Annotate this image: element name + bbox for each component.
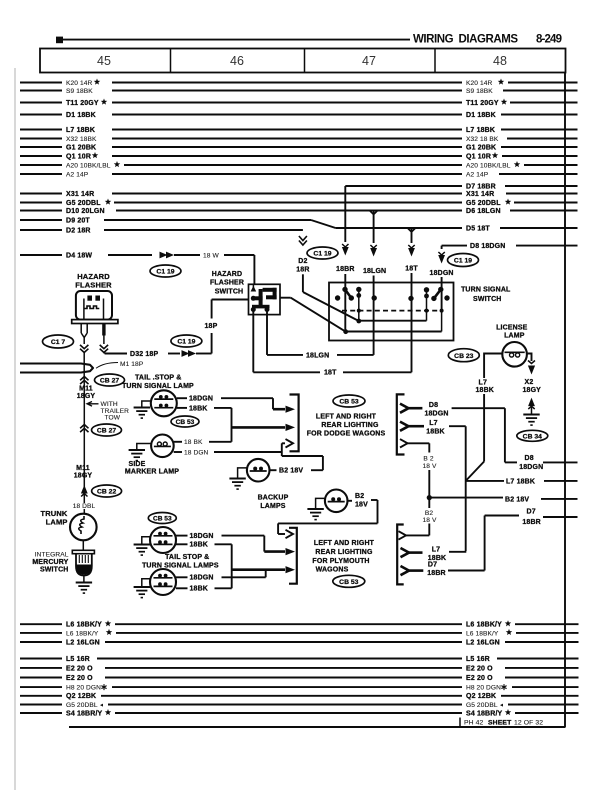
svg-text:46: 46 [230,54,244,68]
svg-text:X32 18 BK: X32 18 BK [466,136,499,143]
svg-text:L7 18BK: L7 18BK [466,127,495,134]
wire 18 DGN (side marker) [174,439,293,456]
svg-text:T11 20GY: T11 20GY [466,100,499,107]
svg-text:18GY: 18GY [523,387,542,394]
wire bundle M1 18P [20,361,144,373]
svg-text:FOR PLYMOUTH: FOR PLYMOUTH [312,558,369,565]
svg-text:18P: 18P [205,323,218,330]
hazard flasher switch [210,271,280,315]
svg-text:LAMP: LAMP [504,332,525,339]
svg-text:18BR: 18BR [427,570,446,577]
wire X32 18BK [20,136,578,143]
wire T11 20GY [20,99,578,107]
wire B2 18V (backup lamp right) [278,493,377,538]
svg-text:A20 10BK/LBL: A20 10BK/LBL [66,162,111,169]
svg-text:D7: D7 [527,509,536,516]
svg-text:L2 16LGN: L2 16LGN [66,639,100,646]
svg-text:CB 27: CB 27 [97,428,116,435]
page scan edge [14,68,16,790]
turn signal switch [329,283,511,341]
svg-text:◄: ◄ [499,703,504,709]
connector bracket (dodge wagons) [290,395,299,452]
svg-text:MARKER LAMP: MARKER LAMP [125,469,179,476]
node 18DGN drop from D8 line [430,246,454,283]
svg-text:C1 19: C1 19 [177,339,195,346]
backup lamp (right) [325,490,348,513]
svg-text:G5 20DBL: G5 20DBL [66,702,98,709]
svg-text:FOR DODGE WAGONS: FOR DODGE WAGONS [307,430,386,437]
wire B2 18V (backup lamp left) [270,468,323,475]
connector C1 7 [43,335,74,348]
svg-text:45: 45 [97,54,111,68]
wire hazard switch diagonal to turn signal switch [280,298,346,332]
wire D4 18W [20,252,254,285]
svg-text:MERCURY: MERCURY [32,559,68,566]
circuit breaker CB 53 (plymouth) [333,575,365,587]
svg-text:H8 20 DGN: H8 20 DGN [466,685,501,692]
svg-text:L7 18BK: L7 18BK [66,127,95,134]
label backup lamps [258,495,289,511]
wire L7 18BK exit right [466,478,578,485]
wire A20 10BK/LBL [20,161,578,169]
svg-text:C1 19: C1 19 [454,258,472,265]
ground (plymouth lower lamp) [134,579,150,598]
svg-text:WAGONS: WAGONS [316,567,349,574]
wire D2 18R [20,227,303,234]
connector C1 19 (D2 line) [307,247,338,259]
wire 18BK (plymouth lower) [176,586,232,593]
svg-text:18DGN: 18DGN [190,575,214,582]
connector CB 34 [517,430,548,441]
svg-text:C1 7: C1 7 [51,339,66,346]
svg-text:G1 20BK: G1 20BK [66,144,96,151]
svg-text:X32 18BK: X32 18BK [66,136,97,143]
node 18BR drop to turn signal switch [336,186,355,283]
wire A2 14P [20,171,578,178]
svg-text:SIDE: SIDE [129,461,146,468]
svg-text:D9 20T: D9 20T [66,217,90,224]
svg-text:SHEET: SHEET [488,720,512,727]
wire L7 18BK from bracket [400,420,466,551]
wire L6 18BK/Y [20,629,579,637]
license lamp [496,325,528,367]
wire D8 18DGN from bracket [400,402,578,471]
svg-text:K20 14R: K20 14R [66,80,92,87]
svg-text:G1 20BK: G1 20BK [466,144,496,151]
svg-text:G5 20DBL: G5 20DBL [466,200,501,207]
svg-text:SWITCH: SWITCH [215,288,244,295]
svg-text:Q2 12BK: Q2 12BK [66,693,96,700]
svg-text:47: 47 [362,54,376,68]
svg-text:E2 20 O: E2 20 O [466,675,493,682]
with trailer tow note [87,401,129,421]
ground (upper tail lamp) [134,401,151,418]
node 18LGN drop from D6 line [363,211,386,283]
svg-text:L7: L7 [432,547,440,554]
column header table [40,49,566,73]
footer sheet label [460,718,543,728]
wire G5 20DBL [20,199,578,207]
svg-text:REAR LIGHTING: REAR LIGHTING [315,549,373,556]
wire X31 14R [20,191,578,198]
ground (backup lamp right) [307,498,325,519]
tail stop & turn signal lamps (plymouth, upper) [150,527,176,553]
svg-text:K20 14R: K20 14R [466,80,492,87]
wire 18DGN (plymouth upper) [176,533,295,555]
svg-text:L6 18BK/Y: L6 18BK/Y [66,622,102,629]
svg-text:18BK: 18BK [426,429,445,436]
wire E2 20 O [20,665,579,672]
svg-text:18DGN: 18DGN [424,411,448,418]
circuit breaker CB 27 (upper) [95,374,125,386]
svg-text:CB 53: CB 53 [339,399,358,406]
node D2 18R drop [296,236,359,321]
svg-text:X2: X2 [525,379,534,386]
svg-text:L6 18BK/Y: L6 18BK/Y [466,622,502,629]
header rule [56,33,562,45]
svg-text:REAR LIGHTING: REAR LIGHTING [321,422,379,429]
svg-text:18DGN: 18DGN [430,270,454,277]
integral mercury switch [32,540,94,575]
svg-text:D32 18P: D32 18P [130,351,158,358]
svg-text:S9 18BK: S9 18BK [466,88,493,95]
svg-text:H8 20 DGN: H8 20 DGN [66,685,101,692]
svg-text:18 W: 18 W [203,252,219,259]
circuit breaker CB 53 (above plymouth lamps) [148,513,176,524]
svg-text:B2 18V: B2 18V [279,468,303,475]
backup lamp (left) [247,459,270,482]
svg-text:18DGN: 18DGN [519,464,543,471]
svg-text:18 DGN: 18 DGN [184,449,209,456]
svg-text:TAIL .STOP &: TAIL .STOP & [135,375,181,382]
wire D10 20LGN / D6 18LGN [20,208,578,215]
svg-text:D1 18BK: D1 18BK [66,112,96,119]
wire B2 18V to plymouth bracket [399,510,437,540]
svg-text:TURN SIGNAL LAMP: TURN SIGNAL LAMP [122,383,194,390]
svg-text:18T: 18T [405,266,418,273]
wire L6 18BK/Y [20,620,579,628]
svg-text:B2: B2 [355,493,364,500]
svg-text:◄: ◄ [99,703,104,709]
svg-text:S9 18BK: S9 18BK [66,88,93,95]
right page border [564,73,566,728]
connector CB 23 [448,349,479,362]
svg-text:CB 53: CB 53 [153,516,172,523]
ground (backup lamp left) [229,468,247,489]
svg-text:LICENSE: LICENSE [496,325,528,332]
svg-text:18BK: 18BK [190,586,209,593]
wire D9 20T / D5 18T with jog [20,217,578,232]
svg-text:D8: D8 [429,402,438,409]
svg-text:C1 19: C1 19 [156,269,174,276]
connector bracket (plymouth, right half) [397,525,404,585]
svg-text:18 V: 18 V [423,463,437,470]
svg-text:TAIL STOP &: TAIL STOP & [165,554,209,561]
svg-text:FLASHER: FLASHER [210,280,244,287]
svg-text:CB 34: CB 34 [523,433,542,440]
svg-text:B2: B2 [425,510,433,517]
svg-text:SWITCH: SWITCH [473,296,502,303]
circuit breaker CB 22 [92,485,122,497]
wire G1 20BK [20,144,578,151]
svg-text:X31 14R: X31 14R [66,191,94,198]
svg-text:TOW: TOW [105,414,121,421]
wire 18DGN (upper tail lamp) [177,396,295,413]
wire 18BK (plymouth upper) [176,542,295,589]
svg-text:L5 16R: L5 16R [66,656,90,663]
svg-text:WIRING DIAGRAMS: WIRING DIAGRAMS [413,33,518,45]
wire hazard switch to 18T row [253,311,411,377]
svg-text:E2 20 O: E2 20 O [66,665,93,672]
wire L7 18BK (plymouth bracket) [401,547,467,563]
svg-text:D5 18T: D5 18T [466,225,490,232]
svg-text:M1 18P: M1 18P [120,361,144,368]
trunk lamp [41,509,97,540]
circuit breaker CB 53 (dodge) [333,395,365,407]
circuit breaker CB 53 (upper) [171,416,199,427]
wire D32 18P [105,350,212,358]
side marker lamp [125,435,179,476]
svg-text:CB 23: CB 23 [454,353,473,360]
svg-text:18 BK: 18 BK [184,439,203,446]
svg-text:LEFT AND RIGHT: LEFT AND RIGHT [316,414,377,421]
svg-text:B2 18V: B2 18V [505,496,529,503]
svg-text:E2 20 O: E2 20 O [66,675,93,682]
wire L2 16LGN [20,639,579,646]
svg-text:T11 20GY: T11 20GY [66,100,99,107]
svg-text:X31 14R: X31 14R [466,191,494,198]
svg-text:D2: D2 [298,258,307,265]
wire H8 20 DGN [20,684,579,691]
wire 18DGN (plymouth lower) [176,570,266,582]
label left and right rear lighting for plymouth wagons [312,540,374,574]
svg-text:CB 53: CB 53 [339,579,358,586]
svg-text:D10 20LGN: D10 20LGN [66,208,105,215]
svg-text:CB 27: CB 27 [100,378,119,385]
svg-text:M11: M11 [79,386,93,393]
svg-text:Q2 12BK: Q2 12BK [466,693,496,700]
svg-text:18BR: 18BR [336,266,355,273]
wire G5 20DBL [20,702,579,709]
wire 18BK (upper tail lamp) [177,405,295,442]
svg-text:18LGN: 18LGN [363,268,386,275]
svg-text:D6 18LGN: D6 18LGN [466,208,501,215]
svg-text:A2 14P: A2 14P [66,171,89,178]
connector C1 19 (D32) [171,335,202,347]
svg-text:SWITCH: SWITCH [40,567,69,574]
wire 18 BK (side marker) [174,439,232,446]
svg-text:Q1 10R: Q1 10R [466,153,491,160]
svg-text:M11: M11 [76,465,90,472]
svg-text:18T: 18T [324,370,337,377]
svg-text:C1 19: C1 19 [313,251,331,258]
svg-text:18DGN: 18DGN [190,533,214,540]
connector C1 19 (D4 line) [150,265,181,277]
svg-text:CB 53: CB 53 [176,419,195,426]
svg-text:D2 18R: D2 18R [66,227,91,234]
svg-text:FLASHER: FLASHER [75,281,112,290]
wire D7 18BR (plymouth bracket) [401,509,578,578]
ground (plymouth upper lamp) [134,537,150,555]
svg-text:18 DBL: 18 DBL [73,503,96,510]
splice arrow into CB 22 [81,480,88,503]
wire Q1 10R [20,152,578,160]
wire M11 18GY rail [77,364,96,481]
label left and right rear lighting for dodge wagons [307,414,386,438]
svg-text:L5 16R: L5 16R [466,656,490,663]
wire K20 14R [20,79,578,87]
wire M11 18GY lower label [74,465,93,479]
svg-text:G5 20DBL: G5 20DBL [466,702,498,709]
wire to backup lamp B2 [282,452,323,470]
svg-text:D7: D7 [428,562,437,569]
hazard flasher [72,272,118,324]
wire S9 18BK [20,88,578,95]
ground (side marker lamp) [129,444,152,461]
svg-text:18GY: 18GY [74,472,93,479]
wire L7 18BK (license lamp left) [466,354,503,481]
svg-text:INTEGRAL: INTEGRAL [35,552,69,559]
svg-text:D7 18BR: D7 18BR [466,183,496,190]
label tail stop & turn signal lamps [142,554,219,570]
hazard flasher left terminal [80,324,88,364]
svg-text:D4 18W: D4 18W [66,252,92,259]
wire E2 20 O [20,675,579,682]
svg-text:18R: 18R [296,266,309,273]
wire S4 18BR/Y [20,709,579,717]
wire D7 18BR (right) [345,183,577,190]
connector bracket (dodge, right half) [397,394,405,454]
svg-text:18LGN: 18LGN [306,352,329,359]
svg-text:S4 18BR/Y: S4 18BR/Y [66,710,103,717]
svg-text:L7 18BK: L7 18BK [506,478,535,485]
svg-text:PH 42: PH 42 [464,720,484,727]
wire hazard switch to 18LGN row [267,310,374,359]
turn signal switch internals [335,283,450,341]
svg-text:E2 20 O: E2 20 O [466,665,493,672]
svg-text:LAMP: LAMP [46,518,68,527]
node 18T drop from D5 line [405,228,418,283]
svg-text:8-249: 8-249 [536,33,562,45]
svg-text:18BK: 18BK [190,542,209,549]
svg-text:TURN SIGNAL: TURN SIGNAL [461,287,511,294]
wire D8 18DGN (right) [442,243,578,250]
svg-text:CB 22: CB 22 [97,489,116,496]
svg-text:HAZARD: HAZARD [212,271,242,278]
svg-text:D8: D8 [525,455,534,462]
svg-text:L7: L7 [429,420,437,427]
connector bracket (plymouth wagons) [289,528,297,584]
ground (mercury switch) [76,576,92,594]
bottom border [69,726,566,728]
svg-text:18V: 18V [355,502,368,509]
tail stop & turn signal lamp (wagon rear, upper) [122,375,194,417]
svg-text:LAMPS: LAMPS [260,503,285,510]
svg-text:L6 18BK/Y: L6 18BK/Y [466,630,499,637]
svg-text:B 2: B 2 [423,455,433,462]
svg-text:Q1 10R: Q1 10R [66,153,91,160]
svg-text:TURN SIGNAL LAMPS: TURN SIGNAL LAMPS [142,563,219,570]
svg-text:L2 16LGN: L2 16LGN [466,639,500,646]
svg-text:L7: L7 [479,379,487,386]
chevron splice [80,425,88,433]
wire L7 18BK [20,127,578,134]
svg-text:18BK: 18BK [476,387,495,394]
wire B2 18V from bracket [400,439,578,508]
svg-text:A2 14P: A2 14P [466,171,489,178]
svg-text:18BR: 18BR [522,519,541,526]
svg-text:BACKUP: BACKUP [258,495,289,502]
hazard flasher right terminal [100,324,108,354]
svg-text:18GY: 18GY [77,393,96,400]
svg-text:A20 10BK/LBL: A20 10BK/LBL [466,162,511,169]
wire Q2 12BK [20,693,579,700]
wire 18P riser to hazard flasher switch [205,300,252,354]
tail stop & turn signal lamps (plymouth, lower) [150,569,176,595]
connector C1 19 (D8 line) [448,254,479,267]
svg-text:D8 18DGN: D8 18DGN [470,243,505,250]
wire D1 18BK [20,112,578,119]
svg-text:18 V: 18 V [423,517,437,524]
svg-text:D1 18BK: D1 18BK [466,112,496,119]
circuit breaker CB 27 (lower) [92,424,122,436]
svg-text:G5 20DBL: G5 20DBL [66,200,101,207]
svg-text:12 OF 32: 12 OF 32 [514,720,543,727]
svg-text:48: 48 [493,54,507,68]
svg-text:LEFT AND RIGHT: LEFT AND RIGHT [314,540,375,547]
svg-text:18DGN: 18DGN [189,396,213,403]
svg-text:L6 18BK/Y: L6 18BK/Y [66,630,99,637]
svg-text:S4 18BR/Y: S4 18BR/Y [466,710,503,717]
svg-text:18BK: 18BK [189,405,208,412]
wire X2 18GY (license lamp right to ground) [523,354,542,426]
wire L5 16R [20,656,579,663]
wire 18 DBL [73,503,96,514]
